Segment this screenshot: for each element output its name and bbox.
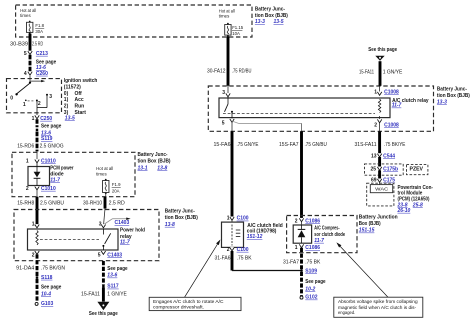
svg-text:PZEV: PZEV bbox=[410, 167, 424, 173]
svg-text:13-1: 13-1 bbox=[138, 165, 148, 171]
svg-text:C1010: C1010 bbox=[41, 186, 56, 192]
svg-text:Absorbs voltage spike from col: Absorbs voltage spike from collapsing bbox=[338, 299, 418, 304]
svg-text:26-10: 26-10 bbox=[397, 208, 411, 214]
svg-text:.75 BK/YE: .75 BK/YE bbox=[384, 142, 406, 148]
svg-text:3: 3 bbox=[222, 90, 225, 96]
svg-text:C260: C260 bbox=[36, 71, 48, 77]
svg-text:times: times bbox=[20, 13, 31, 18]
svg-text:15S-FA7: 15S-FA7 bbox=[279, 142, 299, 148]
svg-text:(11572): (11572) bbox=[64, 84, 81, 90]
svg-text:2.5 GN/OG: 2.5 GN/OG bbox=[40, 143, 64, 149]
svg-text:.75 GN/BU: .75 GN/BU bbox=[305, 142, 328, 148]
svg-text:1: 1 bbox=[227, 216, 230, 222]
svg-text:2: 2 bbox=[32, 252, 35, 258]
svg-text:2): 2) bbox=[64, 104, 69, 110]
svg-text:compressor driveshaft.: compressor driveshaft. bbox=[153, 304, 204, 309]
svg-text:13-3: 13-3 bbox=[255, 19, 265, 25]
svg-text:11-7: 11-7 bbox=[392, 103, 402, 109]
svg-text:151-15: 151-15 bbox=[359, 228, 375, 234]
svg-text:Acc: Acc bbox=[75, 97, 84, 103]
svg-text:tion Box (BJB): tion Box (BJB) bbox=[255, 13, 288, 19]
svg-text:4: 4 bbox=[24, 71, 27, 77]
svg-text:Battery Junc-: Battery Junc- bbox=[437, 86, 467, 92]
svg-text:1): 1) bbox=[64, 97, 69, 103]
svg-text:11-7: 11-7 bbox=[314, 238, 324, 244]
svg-text:.75 GN/YE: .75 GN/YE bbox=[237, 142, 260, 148]
svg-text:30-RH10: 30-RH10 bbox=[83, 201, 102, 207]
svg-text:tion Box (BJB): tion Box (BJB) bbox=[437, 93, 470, 99]
svg-text:1: 1 bbox=[32, 222, 35, 228]
svg-text:91-DA4: 91-DA4 bbox=[16, 265, 34, 271]
svg-text:13-3: 13-3 bbox=[437, 99, 447, 105]
svg-text:13-5: 13-5 bbox=[65, 115, 75, 121]
svg-text:1: 1 bbox=[23, 102, 26, 108]
svg-text:13: 13 bbox=[371, 153, 377, 159]
svg-text:times: times bbox=[219, 13, 230, 18]
svg-text:1: 1 bbox=[32, 116, 35, 122]
svg-text:2.5 RD: 2.5 RD bbox=[32, 41, 43, 47]
svg-text:S119: S119 bbox=[41, 136, 53, 142]
svg-text:3: 3 bbox=[49, 94, 52, 100]
svg-text:11-7: 11-7 bbox=[120, 239, 130, 245]
svg-text:Start: Start bbox=[75, 110, 87, 116]
svg-text:F1.8: F1.8 bbox=[35, 23, 44, 28]
svg-text:2.5 GN/BU: 2.5 GN/BU bbox=[40, 201, 64, 207]
svg-text:A/C Compres-: A/C Compres- bbox=[314, 225, 340, 231]
svg-text:5: 5 bbox=[98, 252, 101, 258]
svg-text:S118: S118 bbox=[41, 275, 53, 281]
svg-text:See page: See page bbox=[305, 279, 325, 285]
svg-text:S117: S117 bbox=[107, 284, 119, 290]
svg-text:0: 0 bbox=[10, 95, 13, 101]
svg-text:PCM power: PCM power bbox=[50, 165, 73, 171]
svg-text:Battery Junc-: Battery Junc- bbox=[165, 209, 195, 215]
svg-text:C175b: C175b bbox=[383, 167, 398, 173]
svg-text:F1.9: F1.9 bbox=[112, 182, 121, 187]
svg-text:Run: Run bbox=[75, 104, 85, 110]
svg-text:magnetic field when A/C clutch: magnetic field when A/C clutch is dis- bbox=[338, 305, 417, 310]
svg-text:Battery Junction: Battery Junction bbox=[359, 215, 398, 221]
svg-text:1 GN/YE: 1 GN/YE bbox=[107, 291, 127, 297]
svg-text:times: times bbox=[96, 171, 107, 176]
svg-text:engaged.: engaged. bbox=[338, 310, 355, 315]
svg-text:G102: G102 bbox=[305, 295, 317, 301]
svg-text:C213: C213 bbox=[36, 51, 48, 57]
svg-text:69: 69 bbox=[371, 178, 377, 184]
svg-text:Ignition switch: Ignition switch bbox=[64, 78, 98, 84]
svg-text:2: 2 bbox=[374, 122, 377, 128]
svg-text:10-2: 10-2 bbox=[305, 286, 315, 292]
svg-text:.75 BK/GN: .75 BK/GN bbox=[41, 265, 65, 271]
svg-text:C175: C175 bbox=[383, 178, 395, 184]
svg-text:13-5: 13-5 bbox=[274, 19, 284, 25]
svg-text:15-RD6: 15-RD6 bbox=[17, 143, 34, 149]
svg-text:30-B39: 30-B39 bbox=[10, 41, 28, 47]
svg-text:15-FA6: 15-FA6 bbox=[214, 142, 231, 148]
svg-text:25-8: 25-8 bbox=[412, 202, 423, 208]
svg-text:C1086: C1086 bbox=[305, 245, 320, 251]
svg-text:13-6: 13-6 bbox=[107, 273, 117, 279]
svg-text:2: 2 bbox=[38, 101, 41, 107]
svg-text:.75 RD/BU: .75 RD/BU bbox=[232, 68, 252, 74]
svg-text:2: 2 bbox=[295, 218, 298, 224]
svg-text:2.5 RD: 2.5 RD bbox=[109, 201, 126, 207]
svg-text:See this page: See this page bbox=[368, 47, 397, 53]
svg-text:15-RH8: 15-RH8 bbox=[17, 201, 34, 207]
svg-text:31S-FA11: 31S-FA11 bbox=[355, 142, 377, 148]
svg-text:Battery Junc-: Battery Junc- bbox=[138, 152, 168, 158]
svg-text:.75 BK: .75 BK bbox=[237, 256, 253, 262]
svg-text:1: 1 bbox=[374, 89, 377, 95]
svg-text:1: 1 bbox=[295, 245, 298, 251]
svg-text:See page: See page bbox=[41, 284, 61, 290]
svg-text:13-8: 13-8 bbox=[157, 165, 167, 171]
svg-text:C1008: C1008 bbox=[384, 122, 399, 128]
svg-text:tion Box (BJB): tion Box (BJB) bbox=[138, 159, 171, 165]
svg-text:C1008: C1008 bbox=[384, 89, 399, 95]
svg-text:5: 5 bbox=[222, 120, 225, 126]
svg-text:0): 0) bbox=[64, 91, 69, 97]
svg-text:13-8: 13-8 bbox=[165, 222, 175, 228]
svg-text:F1.15: F1.15 bbox=[232, 25, 244, 30]
svg-text:2: 2 bbox=[227, 247, 230, 253]
svg-text:Power hold: Power hold bbox=[120, 227, 145, 233]
svg-text:5: 5 bbox=[24, 51, 27, 57]
svg-text:1 GN/YE: 1 GN/YE bbox=[383, 69, 403, 75]
svg-text:C250: C250 bbox=[40, 116, 52, 122]
svg-text:C1010: C1010 bbox=[41, 158, 56, 164]
svg-text:C1403: C1403 bbox=[107, 252, 122, 258]
svg-text:WAC: WAC bbox=[375, 186, 389, 191]
svg-text:See page: See page bbox=[41, 124, 61, 130]
svg-text:C100: C100 bbox=[237, 216, 249, 222]
svg-text:30A: 30A bbox=[35, 29, 43, 34]
svg-text:2: 2 bbox=[26, 186, 29, 192]
svg-text:C100: C100 bbox=[237, 247, 249, 253]
svg-text:20A: 20A bbox=[112, 188, 120, 193]
svg-text:30-FA12: 30-FA12 bbox=[207, 68, 226, 74]
svg-text:Box (BJB): Box (BJB) bbox=[359, 221, 381, 227]
svg-text:25: 25 bbox=[370, 167, 376, 173]
svg-text:Engages A/C clutch to rotate A: Engages A/C clutch to rotate A/C bbox=[153, 299, 224, 304]
svg-text:G103: G103 bbox=[41, 301, 53, 307]
svg-text:C1086: C1086 bbox=[305, 218, 320, 224]
svg-text:See page: See page bbox=[107, 266, 127, 272]
svg-text:C544: C544 bbox=[383, 153, 395, 159]
svg-text:15-FA11: 15-FA11 bbox=[359, 69, 374, 75]
svg-text:31-FA6: 31-FA6 bbox=[215, 256, 231, 262]
svg-text:tion Box (BJB): tion Box (BJB) bbox=[165, 215, 198, 221]
svg-text:Off: Off bbox=[75, 91, 83, 97]
svg-text:10-4: 10-4 bbox=[41, 292, 51, 298]
svg-text:1: 1 bbox=[26, 158, 29, 164]
svg-text:C1403: C1403 bbox=[115, 220, 130, 226]
svg-text:11-7: 11-7 bbox=[50, 177, 60, 183]
svg-text:See this page: See this page bbox=[89, 311, 118, 317]
svg-text:10A: 10A bbox=[232, 31, 240, 36]
svg-text:Battery Junc-: Battery Junc- bbox=[255, 7, 285, 13]
svg-text:S109: S109 bbox=[305, 268, 317, 274]
svg-text:.75 BK: .75 BK bbox=[305, 259, 321, 265]
svg-text:151-12: 151-12 bbox=[247, 234, 263, 240]
svg-text:15-FA11: 15-FA11 bbox=[81, 291, 100, 297]
svg-text:31-FA7: 31-FA7 bbox=[283, 259, 299, 265]
